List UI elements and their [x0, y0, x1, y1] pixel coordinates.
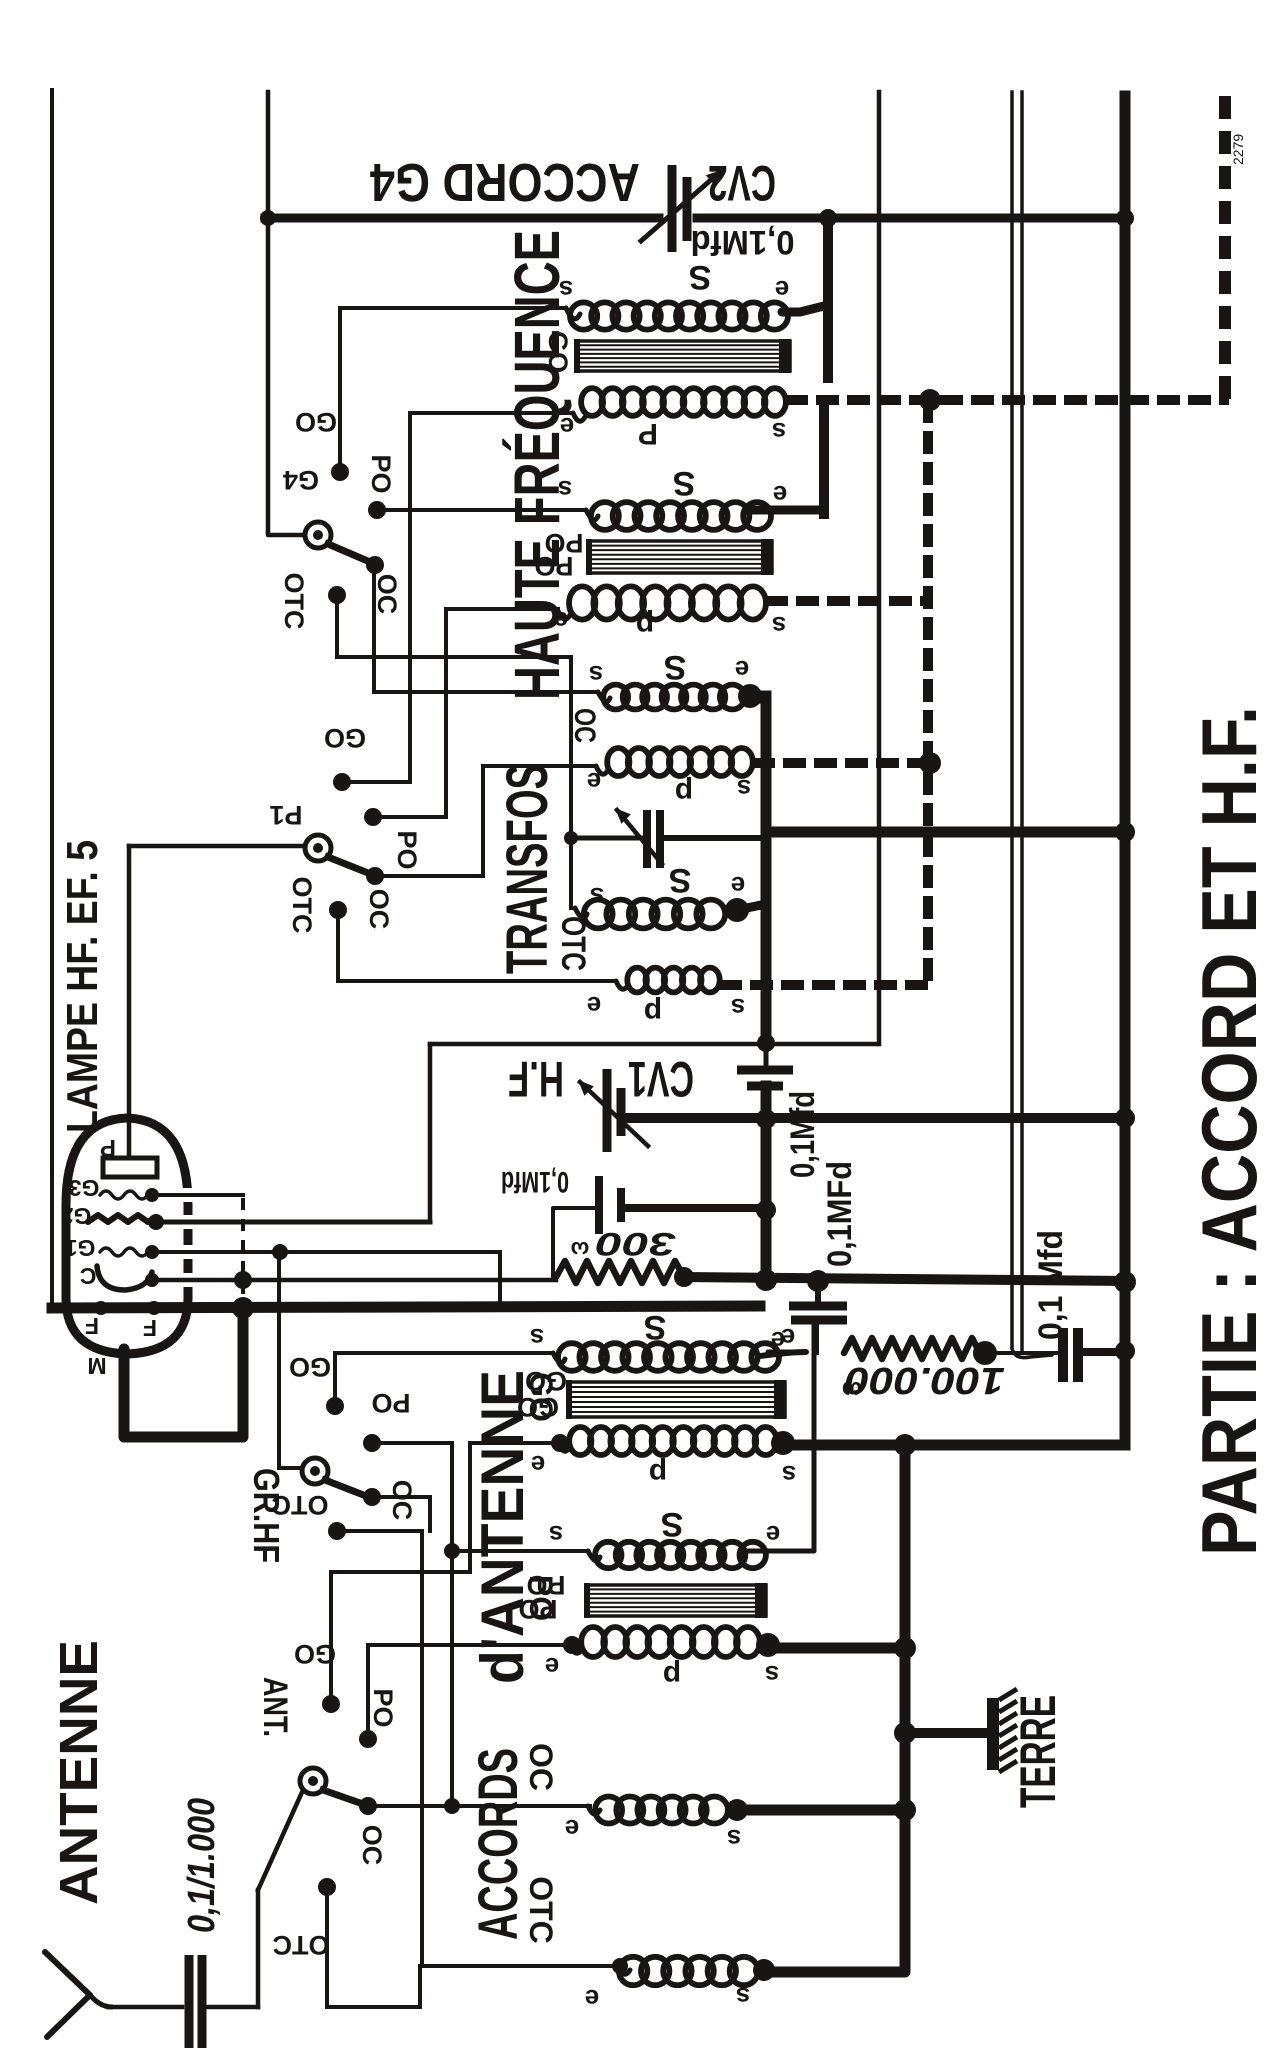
node top bus / coil rail: [819, 209, 837, 227]
wire HF GO pri s to dashed bus: [785, 395, 1229, 405]
coil HF GO primary lead e: [573, 413, 585, 421]
switch S3 contact OTC: [328, 1522, 346, 1540]
node drop452 / OC wire: [444, 1798, 460, 1814]
resistor 100000: [844, 1338, 980, 1359]
switch S1 contact OTC: [328, 586, 346, 604]
switch S1 contact PO: [368, 501, 386, 519]
arrowhead CV2: [706, 170, 722, 185]
wire ANT OTC to ground corner: [764, 1445, 905, 1972]
svg-text:OC: OC: [357, 1825, 387, 1866]
wire trimmer right: [666, 835, 766, 841]
node G2 wire / cap1: [757, 1034, 775, 1052]
switch S3 contact OC: [363, 1488, 381, 1506]
wire S1 PO to coil: [377, 508, 586, 512]
wire cap4 to HT: [1083, 1348, 1125, 1356]
wire S3 OTC down: [420, 1531, 424, 1966]
wire S4 GO up2: [468, 1443, 472, 1572]
svg-text:p: p: [663, 1659, 681, 1692]
node resistor 300 end: [674, 1267, 694, 1287]
node G1 / GRHF rail: [272, 1244, 288, 1260]
svg-text:PO: PO: [371, 1388, 410, 1418]
svg-text:OC: OC: [364, 889, 394, 930]
core ANT PO: [584, 1583, 767, 1618]
node S3 PO tee: [444, 1543, 460, 1559]
wire G2 right: [156, 1220, 430, 1225]
svg-text:TRANSFOS: TRANSFOS: [495, 764, 560, 974]
coil ANT GO pri lead e: [558, 1443, 570, 1451]
svg-text:p: p: [636, 609, 654, 642]
wire S3 OTC right: [337, 1529, 422, 1533]
wire S4 GO up: [329, 1572, 333, 1704]
node ground / terre: [894, 1722, 916, 1744]
wire S3 GO up: [333, 1353, 337, 1406]
switch S4 lever: [323, 1790, 363, 1804]
node ground / PO: [894, 1637, 916, 1659]
svg-text:G1: G1: [64, 1235, 95, 1261]
coil HF OC secondary lead: [598, 692, 610, 702]
wire S2 PO right: [373, 815, 446, 819]
svg-text:0,1 Mfd: 0,1 Mfd: [1032, 1230, 1070, 1340]
svg-text:PO: PO: [523, 1575, 559, 1621]
node cap4 / HT rail: [1115, 1341, 1135, 1361]
svg-text:e: e: [545, 1652, 559, 1682]
switch S4 contact GO: [322, 1695, 340, 1713]
wire S2 OC to coil: [483, 764, 596, 768]
capacitor C1 plate 1: [737, 1066, 793, 1075]
wire thick stub top: [823, 218, 833, 378]
wire cap1 to node: [761, 1086, 772, 1118]
node CV1 bus / HT rail: [1115, 1108, 1135, 1128]
switch S2 contact PO: [364, 808, 382, 826]
svg-text:s: s: [765, 1660, 779, 1690]
wire trimmer arrow: [617, 810, 662, 864]
node C terminal: [145, 1273, 159, 1287]
wire S3 PO right: [372, 1441, 452, 1445]
wire S1 GO up: [338, 308, 342, 472]
switch S1 pivot: [305, 522, 331, 548]
wire HF GO sec e elbow: [782, 305, 828, 312]
node ANT GO pri left: [551, 1434, 569, 1452]
node F right: [147, 1301, 161, 1315]
svg-text:G3: G3: [69, 1175, 100, 1201]
svg-text:OTC: OTC: [272, 1490, 329, 1520]
core ANT GO: [566, 1380, 786, 1419]
svg-text:s: s: [782, 1460, 796, 1490]
wire S1 GO to coil: [340, 306, 566, 310]
node resistor 100000 end: [973, 1341, 997, 1365]
wire left rail: [50, 90, 54, 1308]
svg-text:s: s: [590, 882, 604, 912]
svg-text:P: P: [638, 417, 658, 450]
svg-text:e: e: [587, 767, 601, 797]
node CV1 wire / drop: [756, 1109, 776, 1129]
wire shielded pair line 1: [1010, 92, 1014, 1348]
svg-text:s: s: [589, 660, 603, 690]
node top bus / HT rail: [1116, 209, 1134, 227]
wire S1 OTC down: [335, 595, 339, 657]
wire S3 OTC to coil: [422, 1964, 618, 1968]
svg-text:PO: PO: [392, 830, 422, 869]
svg-text:OTC: OTC: [523, 1876, 559, 1944]
coil HF OTC secondary: [584, 900, 725, 929]
wire shielded pair line 2: [1020, 92, 1024, 1350]
wire cap1 stem: [764, 1043, 769, 1066]
svg-text:S: S: [661, 1505, 684, 1543]
switch S2 contact OC: [366, 867, 384, 885]
wire node1352 left: [768, 1350, 806, 1355]
coil HF OC primary: [607, 748, 753, 776]
wire S2 OC up: [481, 766, 485, 876]
wire S2 OTC to coil: [338, 979, 616, 983]
svg-text:s: s: [530, 1323, 544, 1353]
wire G2 drop: [428, 1044, 433, 1222]
node G3 terminal: [145, 1188, 159, 1202]
wire ANT GO pri to ground bus: [783, 1440, 1125, 1451]
switch S1 contact GO: [331, 463, 349, 481]
svg-text:e: e: [766, 1520, 780, 1550]
node HF OTC sec e blob: [725, 898, 749, 922]
wire HF OC blob link: [750, 698, 766, 700]
node cathode bus / drop766: [755, 1269, 777, 1291]
svg-text:0,1Mfd: 0,1Mfd: [784, 1091, 822, 1178]
tube plate P: [103, 1158, 157, 1177]
coil HF PO primary lead e: [558, 611, 570, 619]
wire S2 GO up: [408, 413, 412, 782]
wire S4 PO up: [366, 1645, 370, 1739]
capacitor Cant plate 1: [185, 1955, 194, 2048]
capacitor C3 plate 1: [789, 1302, 847, 1311]
svg-text:GO: GO: [289, 1352, 331, 1382]
wire S2 PO up: [444, 609, 448, 817]
wire S4 PO to coil: [368, 1643, 568, 1647]
wire cathode bus thick: [684, 1277, 1125, 1281]
wire G1 drop to bus: [498, 1252, 502, 1308]
wire anode bus: [766, 827, 1125, 838]
wire ANT PO sec e up: [745, 1324, 814, 1551]
coil HF OC secondary: [603, 685, 744, 710]
wire S3 PO down: [450, 1443, 454, 1551]
capacitor C4 plate 2: [1073, 1328, 1083, 1382]
node cathode bus / HT rail: [1114, 1271, 1136, 1293]
svg-text:0,1Mfd.: 0,1Mfd.: [682, 223, 795, 261]
switch S2 contact GO: [333, 773, 351, 791]
ground bar: [987, 1698, 999, 1770]
coil HF PO primary: [569, 586, 766, 619]
wire S4 OTC up: [418, 1966, 422, 2007]
wire S4 OC to coil: [368, 1804, 590, 1808]
svg-text:H.F: H.F: [508, 1051, 564, 1107]
capacitor Cant plate 2: [198, 1955, 207, 2048]
svg-text:e: e: [565, 1814, 579, 1844]
tube grid G3: [100, 1191, 148, 1199]
coil ANT PO pri lead e: [570, 1645, 582, 1653]
wire thick drop 766: [761, 1118, 772, 1281]
wire HF PO sec e elbow: [750, 506, 824, 515]
coil ANT PO secondary: [595, 1542, 766, 1568]
svg-text:PO: PO: [366, 454, 396, 493]
wire antenna to cap: [108, 2005, 182, 2010]
node F left: [94, 1301, 108, 1315]
coil ANT OTC lead e: [618, 1966, 630, 1974]
wire C3 stem bottom: [813, 1320, 819, 1352]
svg-text:G2: G2: [61, 1203, 92, 1229]
wire CV1 to node: [627, 1113, 766, 1123]
svg-text:M: M: [87, 1353, 106, 1379]
wire CV1 arrow: [580, 1082, 648, 1146]
wire S1 OC to coil: [374, 690, 598, 694]
svg-text:s: s: [772, 611, 786, 641]
tube grid G1: [100, 1248, 148, 1256]
switch S1 lever: [328, 544, 370, 562]
node ANT OTC s blob: [753, 1959, 775, 1981]
wire HF OTC blob link: [737, 904, 766, 910]
wire S2 OC right: [375, 874, 483, 878]
node dashed bus / dashed drop: [919, 389, 941, 411]
svg-text:S: S: [669, 861, 692, 899]
wire plate lead: [127, 846, 132, 1158]
wire to pivot: [258, 1790, 303, 1890]
arrowhead trimmer: [615, 808, 631, 824]
wire cathode right: [152, 1278, 556, 1283]
wire cap2 right lead: [627, 1204, 766, 1212]
svg-text:F: F: [85, 1313, 99, 1339]
wire S2 GO right: [342, 780, 410, 784]
node G3/cathode: [234, 1271, 252, 1289]
coil ANT OTC: [619, 1957, 758, 1985]
svg-text:e: e: [781, 1323, 795, 1353]
wire ANT GO sec e to node: [760, 1352, 806, 1356]
coil ANT PO primary: [581, 1627, 760, 1657]
switch S3 contact GO: [326, 1397, 344, 1415]
switch S3 contact PO: [363, 1434, 381, 1452]
node HF OC sec e blob: [738, 684, 762, 708]
svg-text:100.000: 100.000: [845, 1359, 1005, 1401]
coil HF OTC primary: [627, 968, 719, 993]
wire HF OC thick drop top: [761, 696, 772, 1043]
svg-text:PO: PO: [368, 1688, 398, 1727]
tube cathode: [97, 1266, 152, 1290]
switch S1 contact OC: [366, 556, 384, 574]
node ANT OTC left: [612, 1958, 628, 1974]
svg-text:CV1: CV1: [628, 1051, 694, 1107]
wire trimmer left: [571, 836, 641, 841]
wire S3 GO to coil: [335, 1351, 553, 1355]
switch S4 pivot: [300, 1768, 326, 1794]
svg-text:OTC: OTC: [279, 573, 309, 630]
wire terre: [905, 1728, 985, 1738]
svg-text:ω: ω: [842, 1376, 862, 1403]
wire CV2 arrow: [641, 172, 720, 241]
coil ANT GO secondary: [558, 1343, 779, 1371]
wire HF OC pri s to dashed bus: [752, 758, 928, 768]
wire dashed drop x928: [923, 400, 933, 985]
capacitor CV2 plate 2: [683, 177, 692, 241]
svg-text:HAUTE FRÉQUENCE: HAUTE FRÉQUENCE: [501, 230, 573, 700]
ground hatches: [999, 1689, 1017, 1772]
svg-text:s: s: [731, 993, 745, 1023]
arrowhead CV1: [578, 1080, 594, 1096]
capacitor trimmer plate 2: [656, 810, 664, 868]
svg-text:S: S: [664, 648, 687, 686]
svg-text:OC: OC: [372, 574, 402, 615]
svg-text:S: S: [689, 258, 712, 296]
coil ANT GO primary: [569, 1427, 777, 1455]
svg-text:S: S: [673, 464, 696, 502]
node ground bus / down rail: [894, 1434, 916, 1456]
antenna stem: [90, 1995, 112, 2007]
capacitor C1 plate 2: [747, 1082, 783, 1091]
svg-text:PARTIE : ACCORD ET H.F.: PARTIE : ACCORD ET H.F.: [1185, 706, 1270, 1556]
wire S2 PO to coil: [446, 607, 558, 611]
capacitor C2 plate 2: [617, 1188, 625, 1222]
wire S4 OTC down: [325, 1887, 329, 2007]
wire switch feed rail: [266, 92, 271, 532]
node cap2/drop: [756, 1200, 776, 1220]
wire dashed rail right: [1219, 96, 1231, 404]
capacitor CV1 plate 1: [603, 1069, 612, 1152]
wire G3 dashed drop: [241, 1198, 245, 1306]
capacitor trimmer plate 1: [643, 810, 651, 868]
svg-text:F: F: [143, 1315, 157, 1341]
node trimmer tee: [564, 831, 578, 845]
coil HF GO primary: [581, 388, 786, 416]
coil HF PO secondary: [591, 502, 771, 530]
wire cap2 left lead: [553, 1208, 597, 1277]
coil HF OTC primary lead e: [616, 981, 628, 989]
wire S3 PO to coil: [452, 1549, 588, 1553]
wire ANT PO pri to ground: [768, 1643, 905, 1654]
svg-text:GO: GO: [523, 1372, 559, 1422]
svg-text:ANT.: ANT.: [256, 1677, 294, 1737]
coil HF GO secondary lead s: [566, 308, 580, 319]
svg-text:e: e: [585, 1984, 599, 2014]
svg-text:GO: GO: [324, 723, 366, 753]
svg-text:OTC: OTC: [287, 877, 317, 934]
wire CV1 node to HT: [766, 1113, 1125, 1123]
wire plate to pivot: [129, 844, 306, 849]
svg-text:e: e: [735, 655, 749, 685]
antenna symbol: [45, 1952, 90, 2037]
wire resistor to cap: [985, 1351, 1056, 1355]
wire S4 GO right: [331, 1570, 470, 1574]
svg-text:LAMPE HF. EF. 5: LAMPE HF. EF. 5: [58, 840, 107, 1133]
coil ANT GO sec lead s: [553, 1353, 565, 1363]
wire S2 OTC down: [336, 910, 340, 981]
coil ANT OC: [595, 1797, 728, 1824]
svg-text:OTC: OTC: [273, 1930, 330, 1960]
svg-text:s: s: [736, 1982, 750, 2012]
wire G2 horizontal: [430, 1042, 877, 1047]
wire long drop 452: [450, 1551, 454, 1806]
svg-text:s: s: [549, 1520, 563, 1550]
wire thick stub mid: [819, 404, 829, 514]
svg-text:ANTENNE: ANTENNE: [49, 1640, 109, 1905]
wire top bus right of CV2: [697, 214, 1125, 223]
svg-text:G4: G4: [283, 465, 319, 495]
core HF PO: [586, 539, 773, 575]
svg-text:P1: P1: [269, 800, 302, 830]
tube base: [124, 1312, 243, 1437]
wire pair hook: [1012, 1348, 1052, 1358]
wire G2 screen rail: [877, 92, 882, 1044]
switch S3 lever: [325, 1480, 366, 1496]
tube envelope: [66, 1118, 188, 1354]
svg-text:e: e: [773, 480, 787, 510]
capacitor CV2 plate 1: [668, 165, 677, 252]
svg-text:P: P: [100, 1134, 116, 1161]
wire S3 OC right: [372, 1495, 430, 1499]
wire ANT OC to ground: [737, 1805, 905, 1816]
node ANT GO pri right blob: [771, 1431, 795, 1455]
switch S2 pivot: [305, 835, 331, 861]
switch S4 contact OTC: [318, 1878, 336, 1896]
wire S1 OTC right: [337, 655, 571, 659]
wire S1 OC down: [372, 565, 376, 692]
node G1 terminal: [145, 1245, 159, 1259]
capacitor CV1 plate 2: [617, 1088, 626, 1136]
switch S2 contact OTC: [329, 901, 347, 919]
svg-text:CV2: CV2: [708, 155, 776, 211]
capacitor C4 plate 1: [1058, 1328, 1068, 1382]
capacitor C3 stem top: [815, 1281, 821, 1302]
svg-text:300: 300: [596, 1226, 676, 1262]
svg-text:0,1/1.000: 0,1/1.000: [181, 1798, 223, 1933]
svg-text:s: s: [772, 417, 786, 447]
wire S4 GO to coil: [470, 1441, 556, 1445]
wire HF PO pri s to dashed bus: [765, 596, 928, 606]
wire filament bus: [52, 1306, 760, 1308]
wire top bus left of CV2: [265, 214, 659, 223]
node G3/filament: [232, 1297, 254, 1319]
svg-text:GO: GO: [294, 1639, 336, 1669]
svg-text:GO: GO: [295, 407, 337, 437]
wire G1 right: [152, 1250, 500, 1254]
node ANT PO pri right blob: [756, 1633, 780, 1657]
core HF GO: [574, 339, 791, 373]
svg-text:p: p: [649, 1457, 667, 1490]
coil HF OC primary lead e: [596, 766, 608, 774]
svg-text:ACCORDS: ACCORDS: [466, 1748, 529, 1940]
wire G3 right: [152, 1193, 243, 1197]
capacitor C3 plate 2: [791, 1316, 847, 1325]
node ANT PO pri left: [563, 1636, 581, 1654]
node dashed bus OC: [919, 752, 941, 774]
coil ANT OC lead e: [588, 1806, 600, 1814]
switch S4 contact OC: [359, 1797, 377, 1815]
wire corner up: [256, 1890, 261, 2007]
svg-text:OC: OC: [387, 1480, 417, 1521]
wire S4 OTC right: [327, 2005, 420, 2009]
switch S2 lever: [328, 857, 368, 873]
svg-text:TERRE: TERRE: [1010, 1695, 1066, 1808]
coil ANT PO sec lead s: [588, 1551, 600, 1561]
node top bus / feed rail: [260, 210, 276, 226]
wire cap to corner: [207, 2005, 258, 2010]
wire GRHF to pivot: [279, 1466, 303, 1470]
svg-text:0,1MFd: 0,1MFd: [821, 1161, 859, 1267]
wire HF OTC pri s to dashed: [719, 980, 928, 990]
switch S4 contact PO: [359, 1730, 377, 1748]
svg-text:s: s: [727, 1824, 741, 1854]
wire S1 feed corner: [268, 532, 305, 535]
wire S2 GO to coil: [410, 411, 573, 415]
node ground / OC: [894, 1799, 916, 1821]
svg-text:0,1Mfd: 0,1Mfd: [501, 1165, 569, 1198]
svg-text:p: p: [675, 776, 693, 809]
capacitor C2 plate 1: [595, 1176, 603, 1234]
wire GRHF rail: [277, 1252, 281, 1468]
switch S3 pivot: [302, 1458, 328, 1484]
